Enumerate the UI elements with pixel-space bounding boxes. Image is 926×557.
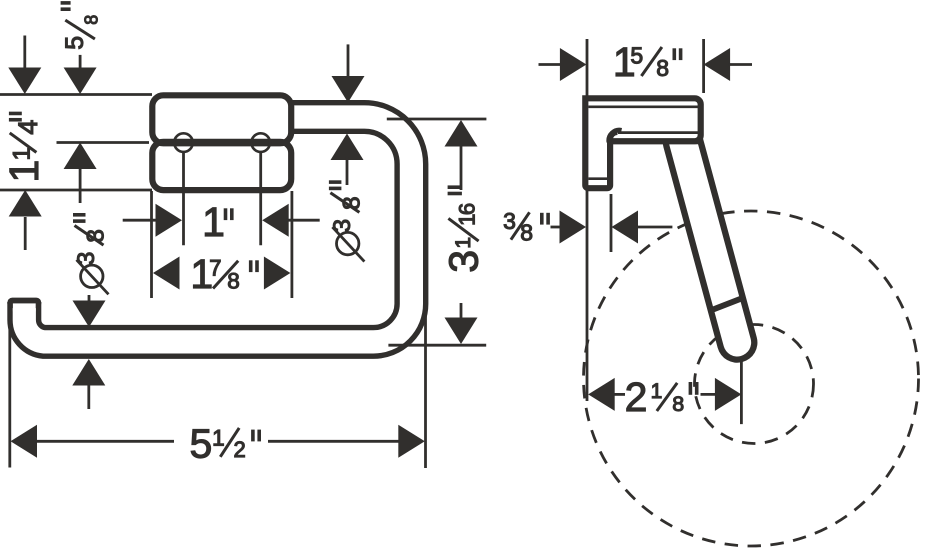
svg-text:3: 3 (329, 219, 356, 233)
dim arrow left 5half (11, 425, 38, 458)
svg-text:3: 3 (441, 250, 487, 273)
dim 1in left tail (123, 219, 158, 222)
label dia-3/8 inch hook (rotated) (73, 215, 110, 294)
dashed roll circle small (695, 325, 814, 444)
ext line 3-1-16 top (387, 118, 487, 121)
svg-text:1: 1 (651, 380, 663, 403)
dim 5half line left (35, 440, 174, 443)
label 3/8 inch wall offset (503, 208, 548, 246)
svg-text:8: 8 (672, 392, 684, 416)
dim 158 left tail (539, 63, 563, 66)
ext line plate left edge (150, 191, 153, 298)
arm crossbar tick (711, 298, 745, 311)
svg-text:5: 5 (630, 43, 643, 69)
ext line roll center (740, 358, 743, 424)
dim 5half line right (268, 440, 400, 443)
svg-text:3: 3 (73, 252, 100, 266)
ext line plate top (0, 93, 152, 96)
svg-text:8: 8 (520, 220, 533, 246)
dim dia38 tail upper (88, 295, 91, 303)
svg-text:2: 2 (625, 374, 648, 420)
svg-text:5: 5 (61, 36, 89, 50)
label 1-1/4 inch (rotated) (1, 113, 47, 182)
rail bottom band (side view) (613, 139, 702, 144)
label 1-7/8 inch (190, 251, 257, 297)
screw hole left (174, 133, 193, 152)
svg-text:7: 7 (209, 256, 221, 281)
svg-text:8: 8 (227, 269, 240, 294)
svg-text:1: 1 (1, 160, 47, 183)
hook end cap (7, 298, 41, 309)
ext line plate right edge (290, 191, 293, 298)
dim arrow right 218 (715, 378, 742, 411)
dim dia38R tail upper (347, 44, 350, 78)
dim 38 text tail (551, 226, 562, 229)
dim 38 right tail (636, 226, 672, 229)
dim arrow down at top rail (332, 76, 365, 103)
dim arrow up 3116 (445, 120, 478, 147)
wall plate base (front view) (152, 95, 291, 190)
svg-text:5: 5 (190, 420, 213, 466)
dim 3116 tail lower (460, 303, 463, 320)
wire loop inner white (front view) (24, 117, 411, 342)
dim 5-8 arrow a tail (23, 36, 26, 70)
dim 218 line right (701, 393, 717, 396)
svg-text:1: 1 (452, 237, 475, 249)
body inner line under top face (588, 106, 700, 109)
label 3-1/16 inch (rotated) (441, 187, 487, 273)
ext line bracket right (610, 194, 613, 252)
svg-text:8: 8 (656, 55, 669, 81)
rail end cap inner arc (612, 134, 618, 140)
ext line 5half left (8, 310, 11, 468)
dashed roll circle large (584, 211, 919, 546)
ext line 158 right (702, 39, 705, 93)
wall plate lower section (152, 142, 291, 190)
label dia-3/8 inch rail (rotated) (329, 182, 366, 262)
dim arrow down at rail top (73, 301, 106, 328)
svg-text:3: 3 (503, 208, 516, 234)
dim 1-14 arrow tail (24, 217, 27, 250)
ext line 5half right (424, 308, 427, 468)
hook end cap inner white (13, 303, 36, 311)
dim arrow down 3116 (445, 318, 478, 345)
label 1 inch (202, 199, 232, 245)
label 5/8 inch (rotated) (61, 3, 102, 50)
svg-text:4: 4 (13, 120, 43, 135)
arm tube outer (side view) (683, 142, 737, 343)
mount body outline (side view) (585, 98, 700, 188)
label 5-1/2 inch (190, 420, 260, 466)
dim arrow right 158 (560, 48, 587, 81)
dim arrow up at top rail bottom (331, 134, 364, 161)
dim arrow right at hole L (156, 204, 183, 237)
arm tube inner white (side view) (683, 142, 737, 343)
dim 3116 tail upper (460, 145, 463, 191)
dim 5-8 arrow c tail (79, 167, 82, 203)
wall plate upper section (152, 95, 291, 143)
ext line hole right (259, 153, 262, 245)
dim arrow right 5half (398, 425, 425, 458)
dim arrow left 38wall (612, 211, 639, 244)
svg-text:8: 8 (338, 196, 365, 210)
rail top line (side view) (618, 131, 700, 134)
dim 158 right tail (728, 63, 752, 66)
dim arrow left at hole R (262, 204, 289, 237)
dim arrow left 218 (588, 378, 615, 411)
dim arrow left at plate L (153, 257, 180, 290)
ext line hole left (182, 153, 185, 245)
ext line plate bottom (0, 189, 152, 192)
dim arrow down at plate top (x80) (64, 68, 97, 95)
dim 218 line left (613, 393, 625, 396)
body bracket inner step line (588, 177, 607, 180)
svg-text:1: 1 (212, 425, 225, 450)
dim 5-8 arrow b tail (79, 55, 82, 70)
dim 1in right tail (286, 219, 320, 222)
svg-text:1: 1 (202, 199, 225, 245)
dim arrow up at hole axis (64, 143, 97, 170)
svg-text:2: 2 (234, 437, 246, 462)
label 1-5/8 inch (613, 39, 681, 85)
svg-text:16: 16 (455, 203, 480, 226)
label 2-1/8 inch (625, 374, 697, 420)
svg-text:8: 8 (82, 15, 102, 25)
dim dia38 tail lower (87, 384, 90, 410)
dim arrow left 158 (704, 48, 731, 81)
wire loop outer (front view) (24, 117, 411, 342)
dim arrow down at plate top (x24) (8, 68, 41, 95)
ext line 3-1-16 bottom (388, 344, 486, 347)
dim arrow right 38wall (560, 211, 587, 244)
dim arrow up at rail bottom (72, 359, 105, 386)
dim arrow right at plate R (264, 257, 291, 290)
svg-text:8: 8 (83, 229, 110, 243)
screw hole right (251, 133, 270, 152)
wall extension line (side view) (586, 39, 589, 401)
dim arrow up at plate bottom (9, 190, 42, 217)
dim dia38R tail lower (346, 157, 349, 185)
rail end cap arc (side view) (609, 130, 622, 142)
ext line hole axis (57, 141, 150, 144)
